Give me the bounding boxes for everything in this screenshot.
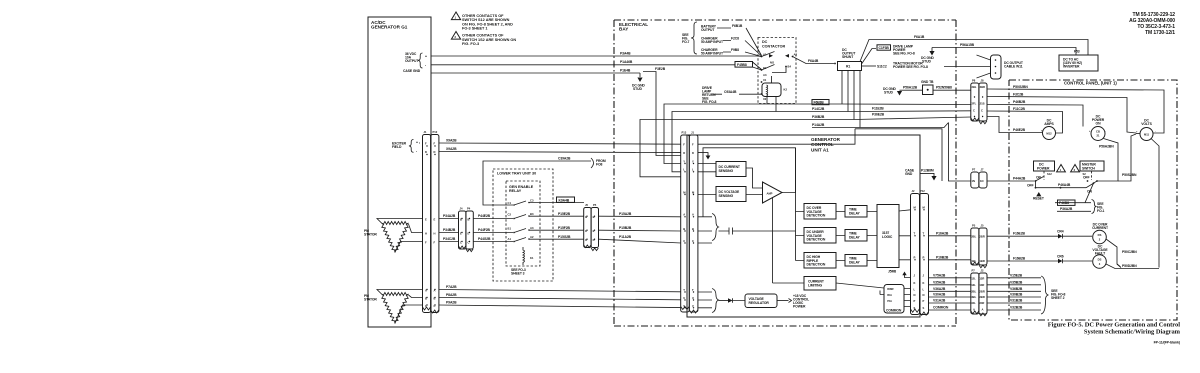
svg-text:J8: J8 [981,79,984,83]
svg-text:CR6: CR6 [1057,255,1064,259]
svg-text:P56A12B: P56A12B [903,86,918,90]
svg-text:DELAY: DELAY [849,211,861,215]
svg-text:TM 1730-12/1: TM 1730-12/1 [1145,30,1175,36]
svg-text:P46B2B: P46B2B [1013,100,1026,104]
svg-text:Figure FO-5. DC Power Generat: Figure FO-5. DC Power Generation and Con… [1048,322,1180,329]
svg-text:35A: 35A [887,293,892,297]
brace group A/B/C rows + capacitor [698,214,796,244]
svg-text:P34C2B: P34C2B [443,237,456,241]
connector J1/P12 on generator [423,130,439,313]
svg-text:1BR: 1BR [979,259,984,263]
common block rows to J2 connector [880,289,911,307]
svg-text:F6B1B: F6B1B [732,24,743,28]
svg-text:34L: 34L [971,301,976,305]
svg-text:34R: 34R [979,301,984,305]
svg-text:F11E2B: F11E2B [872,107,884,111]
svg-text:P12: P12 [920,189,925,193]
svg-text:H: H [434,232,436,236]
svg-text:FO-1: FO-1 [1097,209,1105,213]
svg-text:P11A2B: P11A2B [619,235,632,239]
svg-text:BAY: BAY [619,27,628,32]
electrical bay dash-dot enclosure [614,20,956,326]
time delay 2 [836,230,877,242]
svg-text:SHEET 3: SHEET 3 [511,272,525,276]
DC contactor dashed box [758,38,796,104]
DC amps meter M12 [1041,119,1057,140]
svg-text:P: P [914,299,916,303]
svg-text:P36A2B: P36A2B [1060,207,1073,211]
DC voltage fault lamp DS3 [1092,245,1159,269]
svg-text:12L: 12L [971,276,976,280]
contactor A1-A2 contact [761,52,798,58]
svg-text:P46A4B: P46A4B [1058,183,1071,187]
svg-text:2BR: 2BR [979,235,984,239]
svg-text:P36B2B: P36B2B [812,115,825,119]
wire: P34B2B [439,232,459,234]
wire row common [929,306,1042,311]
svg-text:POWER: POWER [1037,167,1050,171]
svg-text:CONTROL PANEL (UNIT 1): CONTROL PANEL (UNIT 1) [1064,81,1117,86]
svg-text:J4: J4 [460,207,463,211]
wire bundle row 2 P14C2B / F11E2B [672,107,971,172]
gnd tb block [883,80,971,96]
svg-text:P50D2BN: P50D2BN [1122,264,1137,268]
svg-text:-: - [416,149,417,153]
svg-text:REGULATOR: REGULATOR [749,301,770,305]
svg-text:C3: C3 [530,199,534,203]
svg-text:2BL: 2BL [971,235,976,239]
svg-text:A: A [692,213,694,217]
svg-text:-: - [1105,130,1106,133]
shunt output to traction motor power [862,62,929,70]
svg-text:P44F2B: P44F2B [478,228,490,232]
svg-text:FP-11/(FP-blank): FP-11/(FP-blank) [1154,341,1181,345]
svg-text:2BR: 2BR [979,290,984,294]
svg-text:P50C2BN: P50C2BN [1122,250,1137,254]
drive lamp return label [702,86,762,104]
svg-text:CONTACTOR: CONTACTOR [762,45,786,49]
svg-text:P7: P7 [972,168,976,172]
DC under voltage detection box [804,228,836,244]
svg-text:V31A2B: V31A2B [933,299,946,303]
svg-text:INVERTER: INVERTER [1063,65,1080,69]
svg-text:21: 21 [1097,134,1100,138]
svg-text:-: - [1056,130,1057,133]
svg-text:P7A2B: P7A2B [446,285,457,289]
brace to FO-8 sheet 2 [1041,276,1066,314]
svg-text:OUTPUT: OUTPUT [405,59,419,63]
svg-text:J2: J2 [981,269,984,273]
svg-text:FO-7: FO-7 [682,40,690,44]
wire: F-row across GCU joins top loop [698,129,855,144]
lower tray unit 30 dashed box [493,169,553,281]
wire: P46E2B loop to DC amps [987,117,1043,133]
note 1 triangle [451,12,513,31]
connector P8/J8 [971,79,987,124]
svg-text:J5: J5 [585,203,588,207]
svg-text:X9A2B: X9A2B [446,139,457,143]
svg-text:F6A4B: F6A4B [808,59,819,63]
svg-text:3BL: 3BL [971,295,976,299]
svg-text:D: D [692,151,694,155]
svg-text:F16E2B: F16E2B [1013,232,1025,236]
time delay 3 [836,255,877,267]
svg-text:+: + [416,141,418,145]
svg-text:S11C2: S11C2 [877,65,887,69]
wire: P11A2B to GCU pin C [599,239,682,243]
svg-text:B3: B3 [530,212,534,216]
svg-text:A: A [973,308,975,312]
svg-text:A: A [683,213,685,217]
svg-text:F16B2B: F16B2B [1013,257,1026,261]
diode CR4 [1057,230,1092,239]
svg-text:V35B2B: V35B2B [1010,280,1023,284]
svg-text:+: + [425,55,427,59]
DC over current lamp DS2 [1092,223,1121,268]
svg-text:C1: C1 [508,201,512,205]
svg-text:K2: K2 [784,88,788,92]
connector P7/J7 [971,168,987,189]
svg-text:V75A2B: V75A2B [933,273,946,277]
svg-text:K9A4B: K9A4B [559,198,570,202]
svg-text:B4: B4 [788,65,792,69]
boxed label F45B8 on minus wire [735,62,762,71]
svg-text:P50S2BN: P50S2BN [1122,173,1137,177]
svg-text:STUD: STUD [922,60,931,64]
svg-text:J5: J5 [981,224,984,228]
svg-text:P15G2B: P15G2B [558,235,571,239]
wire row V36A2B [929,287,1042,292]
svg-text:P15A2B: P15A2B [619,212,632,216]
svg-text:1BL: 1BL [971,259,976,263]
svg-text:S: S [914,306,916,310]
svg-text:X1: X1 [763,78,767,82]
svg-text:2BR: 2BR [980,85,985,89]
wire: +36VDC P3A4B to contactor A1 [431,55,762,58]
wire: exciter X9A2B upper to GCU pin F [419,143,681,144]
svg-text:C: C [981,109,983,113]
charger 50A input 2 [701,48,762,57]
svg-text:V35A2B: V35A2B [933,280,946,284]
svg-text:SHUNT: SHUNT [842,55,854,59]
wire: P50S2BN master switch to DC volts plus [1118,134,1137,181]
relay contact row 2 [508,212,585,220]
exciter pins F/D [425,142,436,156]
svg-text:C93A4B: C93A4B [724,90,737,94]
charger 50A input 1 [701,37,762,57]
wire: -36VDC P1A46B to F45B8 label [431,64,735,66]
wire: P36A2B stub to brace [1057,200,1105,214]
svg-text:P46E2B: P46E2B [1013,128,1026,132]
svg-text:DETECTION: DETECTION [807,214,826,218]
svg-text:3BR: 3BR [979,295,984,299]
svg-text:M11: M11 [1144,133,1150,137]
amp feedback loop wire [703,148,796,217]
svg-text:P7: P7 [972,269,976,273]
svg-text:P36E2B: P36E2B [872,112,885,116]
svg-text:P8A2B: P8A2B [446,293,457,297]
AC/DC generator G1 box [368,17,431,327]
wire: P16A2B J2 to P5 [929,231,971,236]
svg-text:P: P [923,299,925,303]
contactor coil K2 [761,76,788,112]
svg-text:F11C2B: F11C2B [1013,107,1025,111]
svg-text:System Schematic/Wiring Diagra: System Schematic/Wiring Diagram [1084,329,1181,336]
svg-text:STATOR: STATOR [364,233,377,237]
svg-text:V15E2B: V15E2B [1010,273,1023,277]
wire: P44G2B to relay A row [473,241,513,243]
svg-text:VOLTS: VOLTS [1141,122,1152,126]
wire: F3E2B drop to GCU pin [643,67,681,156]
DC power switch contacts [1027,176,1086,201]
DC power switch S12 label [1034,161,1055,180]
DC to AC inverter box [1059,50,1098,72]
gen enable relay dashed box [506,181,540,266]
svg-text:CABLE W11: CABLE W11 [1004,65,1023,69]
wire: P8A2B PM2 phase B to GCU [439,298,681,300]
wire: P44E2B to relay C row [473,218,513,220]
svg-text:P16A2B: P16A2B [936,231,949,235]
svg-text:J5M8: J5M8 [888,270,896,274]
wire row V75A2B [929,273,1042,278]
svg-text:SENSING: SENSING [719,169,734,173]
svg-text:J7: J7 [981,168,984,172]
svg-text:D: D [425,150,427,154]
DC high ripple detection box [804,253,836,269]
DC volts meter M11 [1136,119,1156,141]
wire: P15A2B to GCU pin A [599,215,682,218]
wire: P56A2BN CB21 to master switch [1097,139,1118,182]
svg-text:P34B2B: P34B2B [443,228,456,232]
svg-text:X9A2B: X9A2B [446,147,457,151]
wire: F6A4B contactor A2 to shunt [793,57,835,64]
diode CR6 [1057,255,1092,264]
wire row V35A2B [929,280,1042,285]
svg-text:GND: GND [905,172,913,176]
svg-text:P12B8M: P12B8M [921,169,934,173]
svg-text:2BL: 2BL [971,290,976,294]
svg-text:-: - [425,63,426,67]
svg-text:V36A2B: V36A2B [933,287,946,291]
wire: P34C2B [439,241,459,243]
GCU connector P13/J1 [681,131,698,314]
svg-text:DELAY: DELAY [849,235,861,239]
wire row V31A2B [929,299,1042,304]
svg-text:13R: 13R [979,283,984,287]
svg-text:J1: J1 [691,131,694,135]
svg-text:AMPS: AMPS [1044,122,1054,126]
svg-text:STUD: STUD [884,91,893,95]
svg-text:STUD: STUD [633,87,642,91]
TM number block [1129,12,1175,36]
svg-text:P56A15B: P56A15B [960,43,975,47]
row J arrow from logic [902,272,910,278]
PM1 wires to connector pins E H F [423,218,436,245]
svg-text:F6A1B: F6A1B [914,35,925,39]
svg-text:B1: B1 [508,227,512,231]
wire: F11C2B to DC amps [987,107,1063,133]
svg-text:V32B2B: V32B2B [1010,306,1023,310]
wire: P56A15B gnd stud to inverter [921,43,1076,64]
svg-text:GENERATOR G1: GENERATOR G1 [371,25,408,30]
svg-text:P56A2BN: P56A2BN [1099,145,1114,149]
svg-text:N: N [914,293,916,297]
svg-text:C39A2B: C39A2B [558,157,571,161]
svg-text:OFF: OFF [1027,184,1034,188]
svg-text:V36B2B: V36B2B [1010,287,1023,291]
svg-text:V31B2B: V31B2B [1010,299,1023,303]
svg-text:F3E2B: F3E2B [655,67,666,71]
svg-text:P16B2B: P16B2B [936,255,949,259]
generator control unit A1 box [687,135,920,317]
connector J5/P5 mid pair 2 [584,203,599,251]
note 2 triangle [451,32,516,47]
wire: GCU top loop to P7/J7 (middle) [855,129,942,181]
svg-text:P9A2B: P9A2B [446,301,457,305]
svg-text:ON: ON [1096,122,1102,126]
3157 logic box [877,205,899,268]
svg-text:NO: NO [770,61,774,65]
svg-text:2BL: 2BL [972,85,977,89]
wire: P16B2B J2 to P5 [929,255,971,260]
svg-text:AMP: AMP [767,192,773,196]
contactor B1-B4 contact [761,61,792,78]
svg-text:FIELD: FIELD [392,145,402,149]
warning triangle 2 [1071,165,1080,172]
svg-text:76A: 76A [887,299,892,303]
generator output terminal labels [403,52,427,73]
svg-text:P52N50B8: P52N50B8 [936,86,952,90]
master switch S2 label [1080,161,1104,180]
svg-text:50 AMP INPUT: 50 AMP INPUT [701,52,724,56]
svg-text:R: R [923,256,925,260]
exciter field label [392,140,418,154]
detector feed vertical [796,148,805,261]
svg-text:P1E4B: P1E4B [620,68,631,72]
battery output input [701,24,762,56]
svg-text:SWITCH: SWITCH [1082,167,1095,171]
relay contact row 1 C1/C3 [508,197,585,206]
svg-text:FO8: FO8 [596,163,603,167]
svg-text:P15F2B: P15F2B [558,226,570,230]
wire: F16B2B P5 to CR6 [987,257,1058,262]
time delay 1 [836,206,877,218]
wire bundle row 1 F6E8B [664,100,971,164]
svg-text:1N: 1N [972,179,975,183]
ground: DC GND stud (top) [632,73,645,91]
svg-text:X2: X2 [763,97,767,101]
svg-text:H: H [425,232,427,236]
svg-text:POWER: POWER [793,305,806,309]
GCU output connector J2/P12 [911,189,929,315]
PM stator 2 [364,290,423,324]
PM2 pins A B C [425,289,436,309]
svg-text:DS: DS [1098,233,1102,237]
DC power circuit breaker CB21 [1089,115,1106,141]
svg-text:E: E [425,218,427,222]
see fig FO-7 brace [682,22,697,54]
svg-text:DETECTION: DETECTION [807,263,826,267]
op-amp AMP [746,168,782,203]
svg-text:P34A2B: P34A2B [443,214,456,218]
svg-text:A3: A3 [763,73,767,77]
wire bundle row 4 P14A2B to P7/J7 [812,123,971,182]
svg-text:F3C2B: F3C2B [1013,93,1024,97]
svg-text:DELAY: DELAY [849,260,861,264]
voltage regulator input brace and diode [698,289,745,313]
svg-text:P12: P12 [433,130,438,134]
svg-text:50 AMP INPUT: 50 AMP INPUT [701,40,724,44]
svg-text:A3: A3 [530,226,534,230]
bottom multiwire rows J2 to P7/J2 to FO-8 [971,269,987,316]
svg-text:P44A2B: P44A2B [1013,177,1026,181]
svg-text:COMMON: COMMON [886,309,902,313]
svg-text:P13: P13 [682,131,687,135]
PM stator 1 [364,219,423,253]
svg-text:P15E2B: P15E2B [558,212,571,216]
svg-text:K: K [923,281,925,285]
svg-text:A2: A2 [530,235,534,239]
DC over voltage detection box [804,204,836,220]
svg-text:P5: P5 [593,203,597,207]
svg-text:POWER SEE FIG. FO-8: POWER SEE FIG. FO-8 [893,65,928,69]
svg-text:OFF: OFF [1083,176,1090,180]
svg-text:21B: 21B [980,102,985,106]
svg-text:P1A46B: P1A46B [620,60,633,64]
warning triangle 1 [1057,165,1066,172]
boxed label P44B8 near switch [1057,198,1059,200]
control panel unit 1 dashed enclosure [1009,80,1177,320]
wire: C39A2B from FO-8 into relay C1 [483,157,606,206]
svg-text:DC: DC [762,40,768,44]
wire: P50G2BN to DC volts minus [987,85,1164,133]
svg-text:35MF: 35MF [887,287,894,291]
DC voltage sensing box [698,187,746,202]
svg-text:LOWER TRAY UNIT 30: LOWER TRAY UNIT 30 [497,172,536,176]
svg-text:SHEET 2: SHEET 2 [1051,296,1065,300]
svg-text:K1: K1 [530,256,534,260]
svg-text:FO-3 SHEET 1: FO-3 SHEET 1 [462,27,488,31]
svg-text:P50G2BN: P50G2BN [1013,85,1028,89]
wire: P7A2B PM2 phase A to GCU [439,290,681,292]
svg-text:F53: F53 [1074,50,1080,54]
DC output cable W11 connector [944,55,1024,79]
svg-text:CB: CB [1096,130,1100,134]
shunt sense drop wires [842,71,860,128]
svg-text:K: K [914,281,916,285]
svg-text:J1: J1 [424,130,427,134]
svg-text:CR4: CR4 [1057,230,1064,234]
wire row V30A2B [929,293,1042,298]
wire: P34A2B [439,218,459,220]
svg-text:2FL: 2FL [972,102,977,106]
svg-text:S: S [923,306,925,310]
svg-text:F9B8: F9B8 [731,48,739,52]
wire: P15B2B to GCU pin B [599,229,682,232]
caption figure FO-5 [1048,322,1181,345]
svg-text:M12: M12 [1046,132,1052,136]
svg-text:C2: C2 [508,213,512,217]
svg-text:P14A2B: P14A2B [812,123,825,127]
svg-text:D: D [434,150,436,154]
wire: case gnd P1E4B to DC GND stud [431,72,640,74]
svg-text:C1F3B: C1F3B [879,46,890,50]
svg-text:F6E8B: F6E8B [814,101,825,105]
svg-text:V30A2B: V30A2B [933,293,946,297]
relay contact row 3 [508,226,585,234]
svg-text:D: D [683,151,685,155]
svg-text:RESET: RESET [1033,197,1045,201]
